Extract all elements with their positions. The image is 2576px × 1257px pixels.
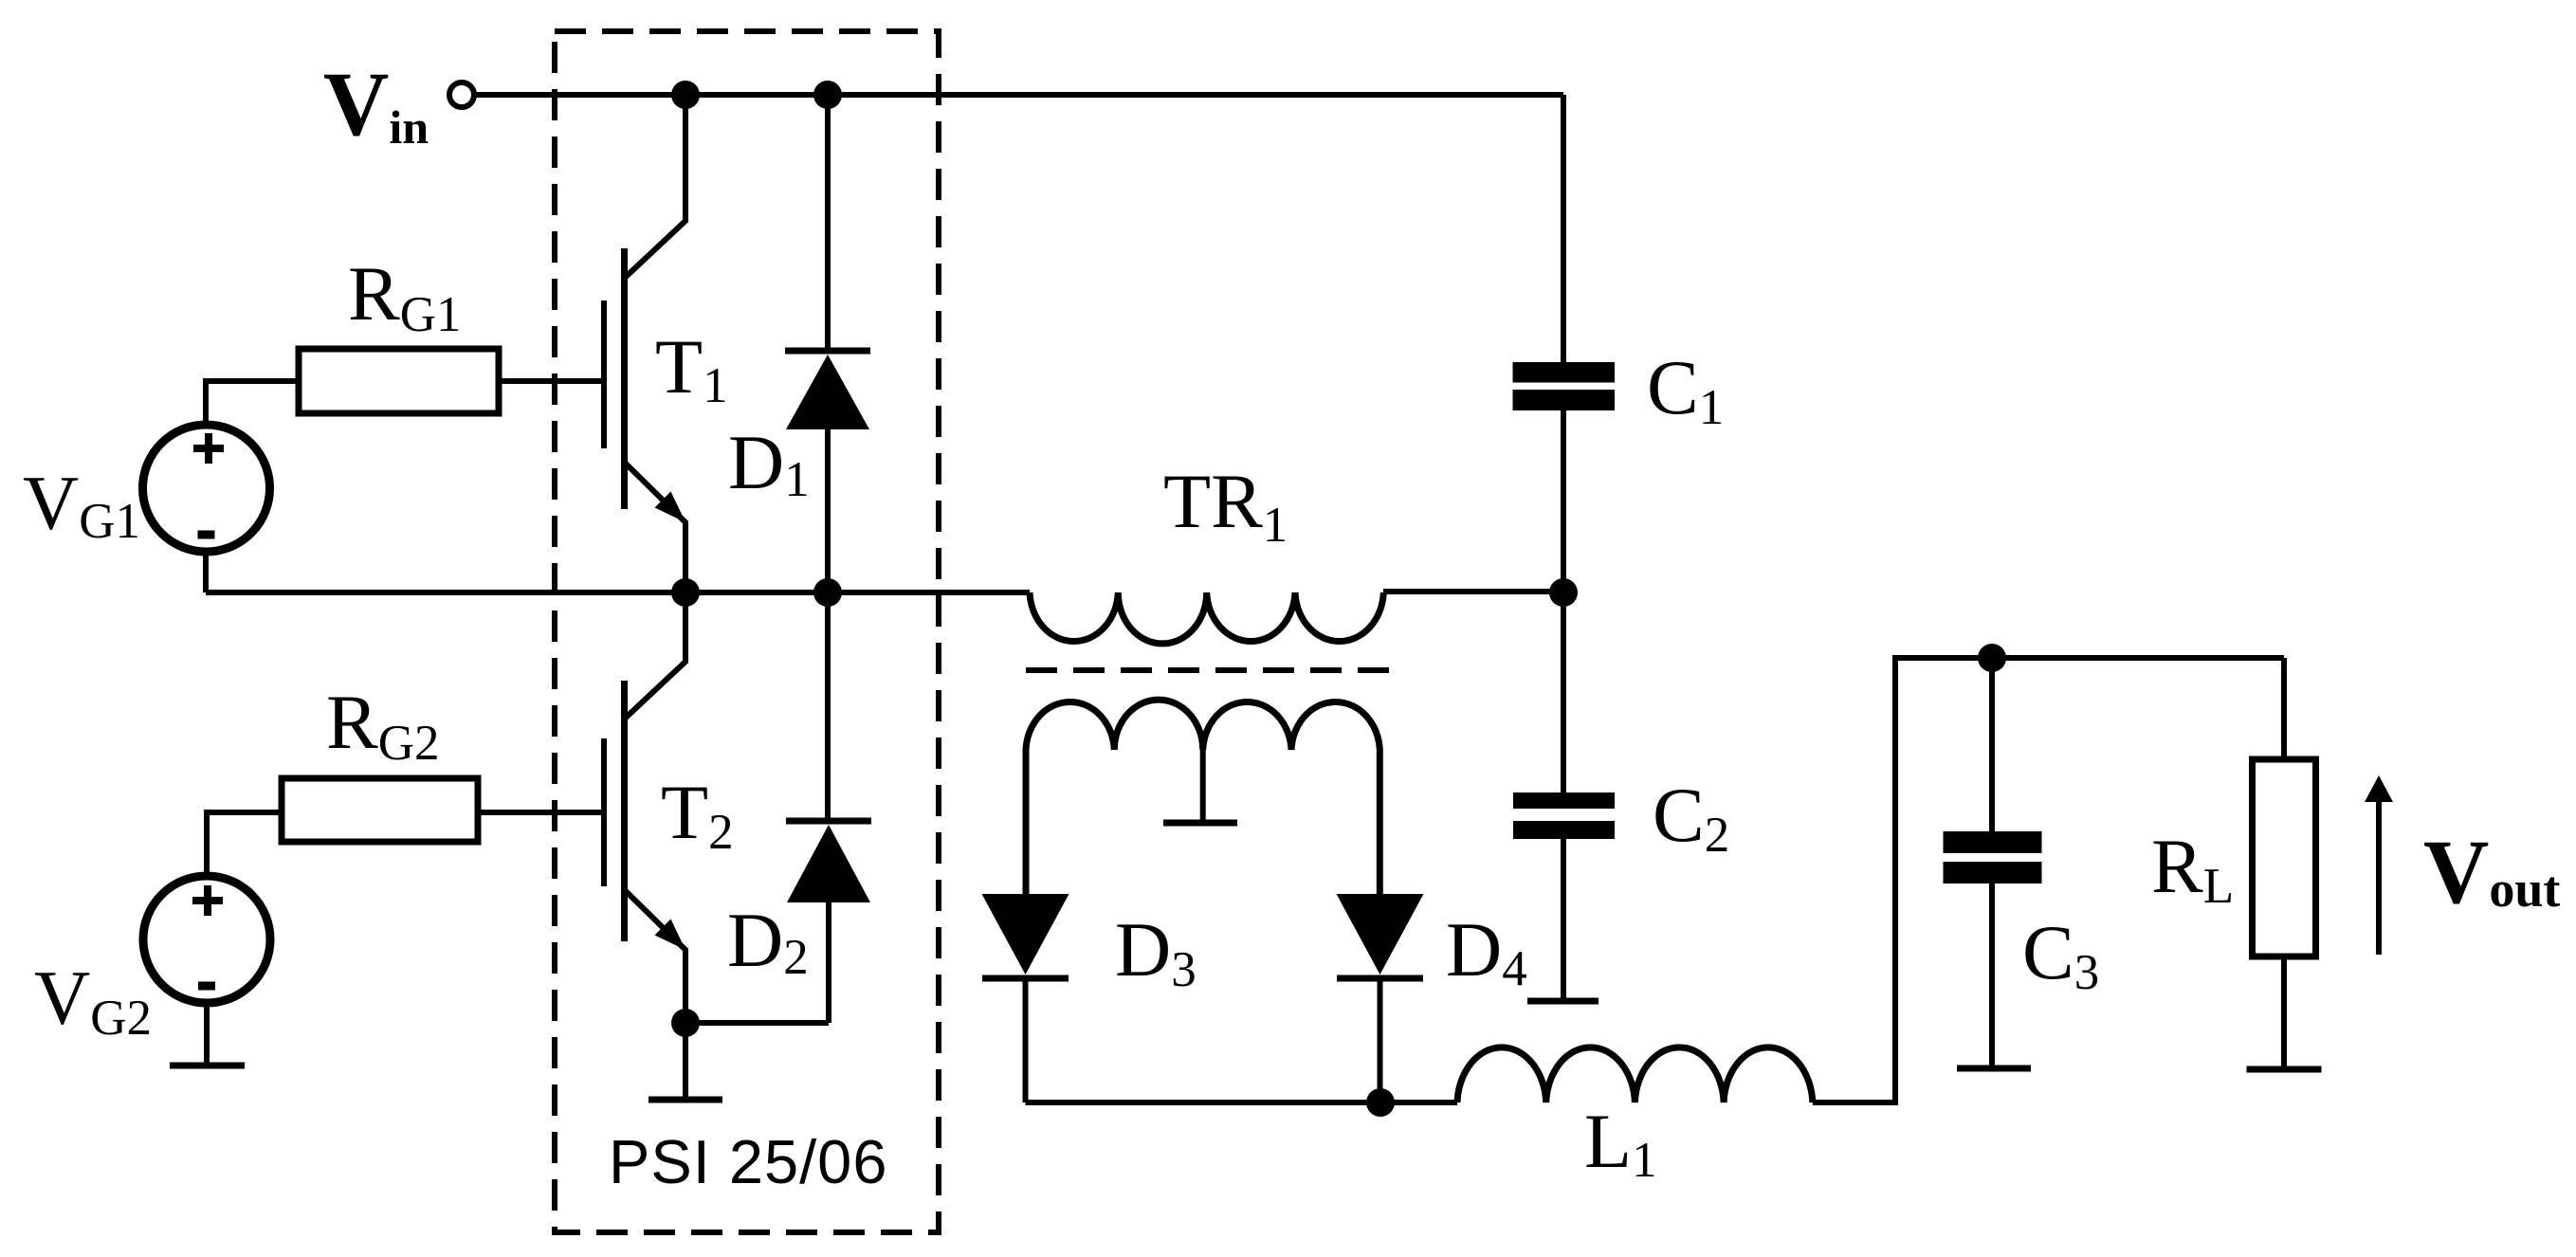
ground center tap	[1163, 820, 1237, 827]
node C1 C2 transformer	[1549, 578, 1578, 607]
source VG1	[143, 425, 270, 552]
svg-text:PSI 25/06: PSI 25/06	[609, 1127, 888, 1196]
wire VG1 plus to RG1	[206, 381, 299, 427]
transistor T1	[604, 95, 685, 592]
ground T2 emitter	[649, 1097, 722, 1103]
node mid rail / D1 anode	[813, 578, 842, 607]
wire D2 anode to T2 emitter	[685, 1020, 829, 1026]
ground VG2	[170, 1063, 245, 1069]
wire rectifier output rail	[1026, 1100, 1458, 1105]
source VG2	[143, 876, 270, 1003]
capacitor C3	[1944, 658, 2042, 1068]
transistor T2	[604, 592, 685, 1023]
node mid rail / T1 emitter	[671, 578, 700, 607]
secondary winding TR1	[1026, 700, 1379, 894]
node top rail / D1 cathode	[813, 81, 842, 109]
node rectifier output	[1366, 1088, 1395, 1117]
wire VG2 minus to ground	[204, 1001, 210, 1063]
inductor L1	[1457, 1047, 1813, 1102]
wire RG2 to T2 gate	[478, 810, 604, 815]
node T2 emitter	[671, 1009, 700, 1037]
primary winding TR1	[1030, 592, 1383, 644]
arrow Vout	[2365, 775, 2393, 955]
capacitor C1	[1513, 362, 1616, 592]
dashed module box PSI 25/06	[555, 31, 939, 1232]
wire top rail to C1	[1561, 95, 1566, 362]
wire mid rail	[206, 590, 1030, 595]
capacitor C2	[1513, 592, 1615, 1001]
resistor RG2	[282, 778, 478, 842]
diode D3	[982, 894, 1069, 1102]
node top rail / T1 collector	[671, 81, 700, 109]
core TR1	[1026, 667, 1389, 673]
terminal Vin	[449, 82, 474, 107]
wire secondary center tap	[1200, 748, 1206, 820]
wire RG1 to T1 gate	[499, 378, 604, 384]
resistor RL	[2247, 658, 2322, 1069]
wire top rail Vin to C1	[474, 92, 1563, 98]
wire VG1 minus to mid rail	[203, 550, 209, 592]
diode D2	[786, 592, 871, 1023]
wire T2 emitter to ground	[683, 1023, 688, 1097]
node output	[1978, 644, 2006, 672]
resistor RG1	[299, 349, 499, 413]
diode D1	[785, 95, 870, 592]
wire VG2 plus to RG2	[207, 812, 282, 878]
diode D4	[1337, 894, 1424, 1102]
wire L1 to output node	[1813, 658, 2284, 1102]
wire primary to node C1/C2	[1383, 589, 1563, 594]
